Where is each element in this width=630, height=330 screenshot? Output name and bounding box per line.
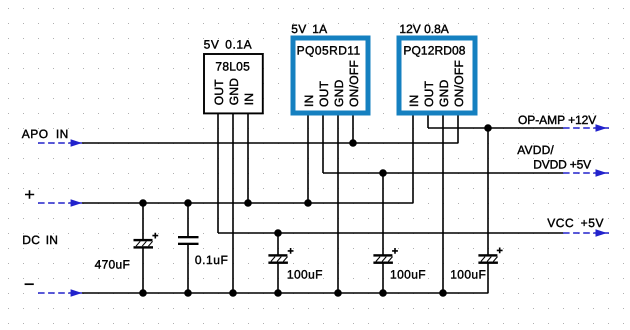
wire C2 top lead bbox=[187, 203, 189, 237]
svg-text:OUT: OUT bbox=[212, 79, 226, 106]
wire C3 top lead bbox=[277, 233, 279, 255]
svg-text:470uF: 470uF bbox=[95, 257, 131, 271]
capacitor C4 100uF electrolytic symbol bbox=[373, 248, 398, 264]
wire APO IN rail bbox=[82, 142, 458, 144]
junction C1 / plus rail bbox=[139, 199, 147, 207]
wire C4 bottom lead bbox=[382, 263, 384, 293]
label - (DC IN negative) bbox=[25, 283, 34, 285]
port OP-AMP +12V (output arrow) bbox=[563, 124, 609, 132]
wire C4 top lead bbox=[382, 173, 384, 255]
wire U2 IN to plus rail bbox=[307, 113, 309, 203]
svg-text:VCC +5V: VCC +5V bbox=[547, 216, 604, 230]
svg-text:ON/OFF: ON/OFF bbox=[452, 60, 466, 107]
wire U3 OUT to +12V rail bbox=[427, 113, 429, 128]
port + (input arrow) bbox=[38, 199, 82, 207]
svg-text:GND: GND bbox=[332, 79, 346, 107]
label + (DC IN positive) bbox=[25, 190, 34, 199]
wire C5 bottom lead bbox=[487, 263, 489, 293]
wire C3 bottom lead bbox=[277, 263, 279, 293]
junction C2 / ground rail bbox=[184, 289, 192, 297]
wire AVDD rail bbox=[323, 172, 563, 174]
wire C2 bottom lead bbox=[187, 244, 189, 293]
wire VCC +5V rail bbox=[218, 232, 563, 234]
regulator U2 PQ05RD11 body bbox=[293, 38, 368, 113]
svg-text:78L05: 78L05 bbox=[215, 59, 250, 73]
junction U2 ON/OFF / APO rail bbox=[349, 139, 357, 147]
svg-text:100uF: 100uF bbox=[450, 268, 486, 282]
regulator U3 PQ12RD08 body bbox=[399, 38, 475, 113]
junction U1 GND / ground rail bbox=[229, 289, 237, 297]
svg-text:5V 0.1A: 5V 0.1A bbox=[204, 38, 253, 52]
capacitor C1 470uF electrolytic symbol bbox=[134, 233, 159, 249]
wire plus rail bbox=[82, 202, 413, 204]
svg-text:100uF: 100uF bbox=[390, 268, 426, 282]
capacitor C2 0.1uF symbol bbox=[178, 236, 199, 245]
svg-text:DVDD +5V: DVDD +5V bbox=[533, 157, 591, 171]
svg-text:ON/OFF: ON/OFF bbox=[347, 60, 361, 107]
wire C1 bottom lead bbox=[142, 248, 144, 293]
svg-text:IN: IN bbox=[302, 94, 316, 107]
port - (input arrow) bbox=[38, 289, 82, 297]
svg-text:PQ12RD08: PQ12RD08 bbox=[403, 44, 465, 58]
wire U3 IN to plus rail bbox=[412, 113, 414, 203]
wire U2 ON/OFF to APO rail bbox=[352, 113, 354, 143]
svg-text:OP-AMP +12V: OP-AMP +12V bbox=[518, 113, 596, 127]
junction U1 IN / plus rail bbox=[244, 199, 252, 207]
svg-text:OUT: OUT bbox=[422, 80, 436, 107]
svg-text:PQ05RD11: PQ05RD11 bbox=[297, 44, 361, 58]
capacitor C5 100uF electrolytic symbol bbox=[478, 248, 502, 264]
svg-text:APO IN: APO IN bbox=[22, 127, 69, 141]
svg-text:DC IN: DC IN bbox=[22, 233, 58, 247]
wire minus/ground bottom rail bbox=[82, 292, 488, 294]
wire U3 GND to ground rail bbox=[442, 113, 444, 293]
port DVDD +5V (output arrow) bbox=[563, 169, 609, 177]
wire U3 ON/OFF to APO rail bbox=[457, 113, 459, 143]
junction C3 / VCC rail bbox=[274, 229, 282, 237]
svg-text:AVDD/: AVDD/ bbox=[517, 143, 554, 157]
junction U2 GND / ground rail bbox=[334, 289, 342, 297]
junction C4 / AVDD rail bbox=[379, 169, 387, 177]
junction C5 / +12V rail bbox=[484, 124, 492, 132]
junction C2 / plus rail bbox=[184, 199, 192, 207]
capacitor C3 100uF electrolytic symbol bbox=[268, 248, 293, 264]
svg-text:12V 0.8A: 12V 0.8A bbox=[399, 22, 448, 36]
wire C5 top lead bbox=[487, 128, 489, 255]
junction C4 / ground rail bbox=[379, 289, 387, 297]
wire U1 GND to ground rail bbox=[232, 113, 234, 293]
svg-text:5V 1A: 5V 1A bbox=[291, 22, 327, 36]
wire U1 OUT to VCC rail bbox=[217, 113, 219, 233]
junction C1 / ground rail bbox=[139, 289, 147, 297]
junction U3 GND / ground rail bbox=[439, 289, 447, 297]
svg-text:0.1uF: 0.1uF bbox=[195, 253, 228, 267]
wire OP-AMP +12V rail bbox=[428, 127, 563, 129]
svg-text:IN: IN bbox=[407, 94, 421, 107]
svg-text:100uF: 100uF bbox=[287, 268, 323, 282]
wire U2 GND to ground rail bbox=[337, 113, 339, 293]
svg-text:GND: GND bbox=[227, 78, 241, 106]
svg-text:GND: GND bbox=[437, 79, 451, 107]
svg-text:OUT: OUT bbox=[317, 80, 331, 107]
svg-text:IN: IN bbox=[242, 93, 256, 106]
regulator U1 78L05 body bbox=[204, 54, 263, 113]
junction U2 IN / plus rail bbox=[304, 199, 312, 207]
junction C3 / ground rail bbox=[274, 289, 282, 297]
wire U1 IN to plus rail bbox=[247, 113, 249, 203]
port APO IN (input arrow) bbox=[38, 139, 82, 147]
wire U2 OUT to AVDD rail bbox=[322, 113, 324, 173]
wire C1 top lead bbox=[142, 203, 144, 240]
port VCC +5V (output arrow) bbox=[563, 229, 609, 237]
